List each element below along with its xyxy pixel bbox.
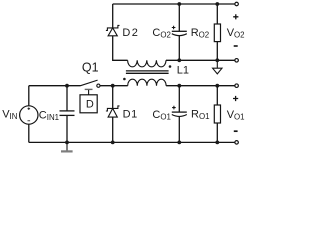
ground (input, bar style) <box>66 142 68 150</box>
node top winding dot <box>169 65 172 68</box>
node junction dots bottom rail <box>65 141 69 145</box>
source V_IN <box>20 86 38 143</box>
inductor L1 bottom winding <box>128 79 166 86</box>
node bottom winding dot <box>123 78 126 81</box>
wire control stem <box>88 90 90 95</box>
switch Q1 contact <box>97 84 100 87</box>
block D (duty cycle) <box>80 95 97 113</box>
V_O1 minus sign <box>234 130 238 132</box>
V_O1 plus sign <box>233 96 238 101</box>
inductor L1 top winding <box>128 60 166 67</box>
switch Q1 control bar <box>85 88 93 90</box>
terminal V_O2 minus <box>235 59 239 63</box>
diode D2 <box>106 25 120 35</box>
node junction dots top rail <box>177 2 181 6</box>
svg-text:D1: D1 <box>123 109 138 121</box>
wire D2 column bottom <box>113 36 128 60</box>
terminal V_O1 plus <box>235 84 239 88</box>
capacitor C_O2 <box>172 4 187 60</box>
wire D2 column top <box>112 4 114 28</box>
resistor R_O1 <box>214 86 220 143</box>
node junction dots mid rail <box>65 84 69 88</box>
wire mid rail right <box>166 85 235 87</box>
svg-text:L1: L1 <box>177 65 189 77</box>
capacitor C_IN1 <box>60 86 75 143</box>
node junction dots mid-top rail <box>177 58 181 62</box>
terminal V_O1 minus <box>235 141 239 145</box>
ground (top section) <box>213 60 222 74</box>
V_O2 plus sign <box>233 14 238 19</box>
L1 core lines <box>126 71 169 73</box>
wire bottom rail <box>29 141 235 143</box>
V_O2 minus sign <box>234 45 238 47</box>
capacitor C_O1 <box>172 86 187 143</box>
diode D1 <box>106 86 120 143</box>
svg-text:D: D <box>86 99 94 111</box>
wire mid rail left <box>29 85 81 87</box>
switch Q1 lever <box>81 80 98 86</box>
svg-text:D2: D2 <box>122 27 139 39</box>
wire mid rail to D1 <box>100 85 128 87</box>
terminal V_O2 plus <box>235 2 239 6</box>
resistor R_O2 <box>214 4 220 60</box>
wire mid-top rail right <box>166 59 235 61</box>
wire top rail <box>113 3 235 5</box>
svg-text:Q1: Q1 <box>82 60 99 74</box>
